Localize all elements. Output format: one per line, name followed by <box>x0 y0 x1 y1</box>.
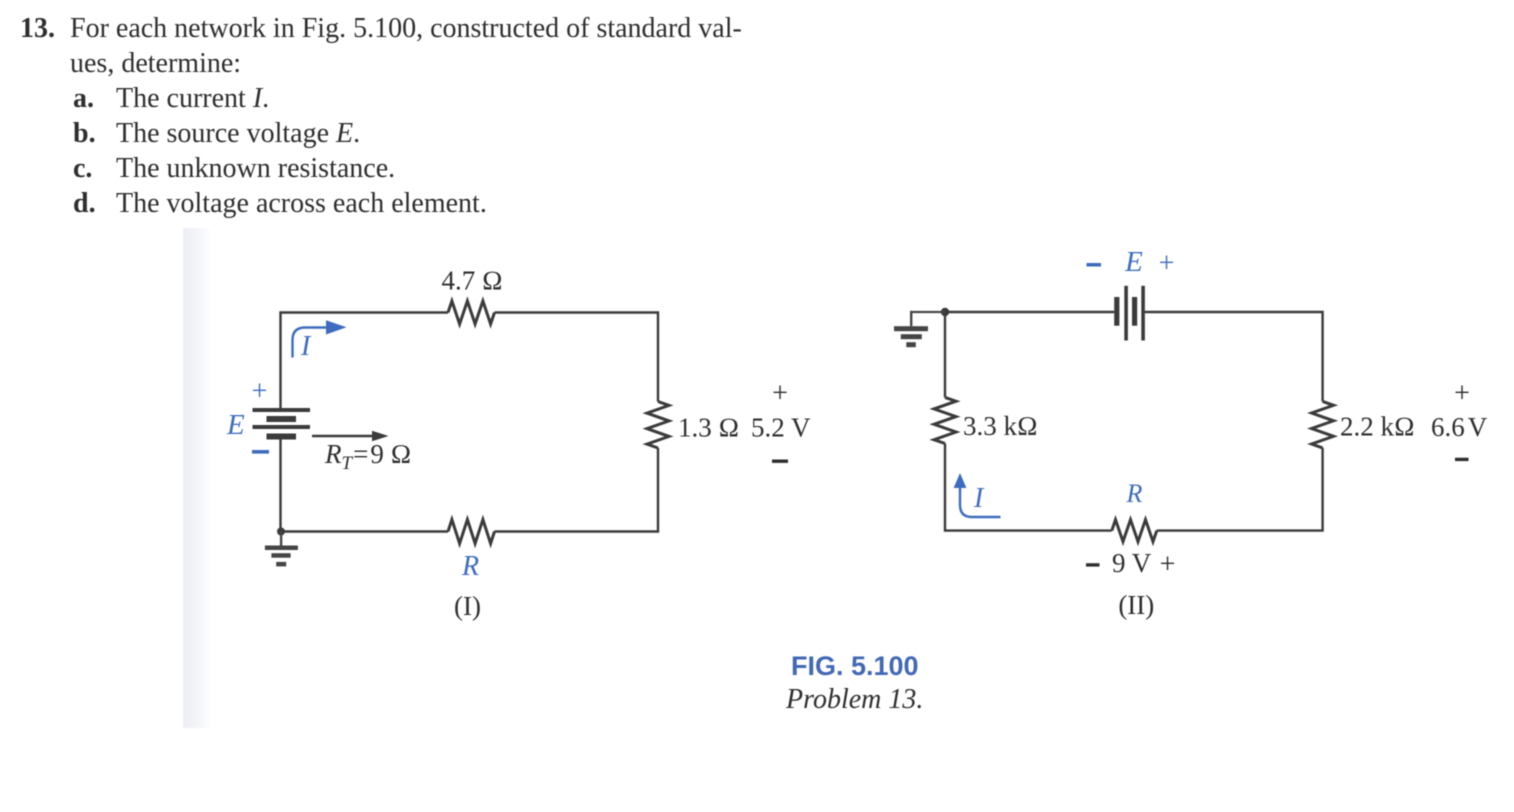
svg-text:RT=9 Ω: RT=9 Ω <box>324 439 411 474</box>
svg-text:The current I.: The current I. <box>116 83 269 114</box>
svg-text:2.2 kΩ: 2.2 kΩ <box>1340 412 1415 442</box>
resistor 1.3 ohm zigzag <box>647 402 669 449</box>
svg-text:13.: 13. <box>20 13 55 44</box>
svg-text:ues, determine:: ues, determine: <box>70 48 241 79</box>
battery E (circuit I) <box>253 408 311 440</box>
svg-text:+: + <box>252 376 268 407</box>
resistor 2.2k zigzag <box>1312 401 1334 448</box>
svg-text:+: + <box>1454 378 1470 409</box>
wire battery to top-right corner, down to resistor <box>1145 312 1323 401</box>
svg-text:(II): (II) <box>1118 590 1154 620</box>
current arrow I (blue, circuit I) <box>293 328 328 358</box>
label - 9 V + below resistor <box>1086 563 1100 566</box>
svg-text:d.: d. <box>73 188 96 219</box>
svg-text:1.3 Ω: 1.3 Ω <box>678 413 739 443</box>
node dot top-left (II) <box>941 308 949 316</box>
svg-text:+: + <box>772 378 788 409</box>
resistor R zigzag (bottom II) <box>1112 520 1157 542</box>
label - (6.6V) <box>1455 458 1469 461</box>
labels - E + above battery II <box>1087 263 1102 267</box>
wire top-left segment (left of resistor R 4.7) <box>281 313 449 409</box>
svg-text:R: R <box>1126 479 1143 508</box>
wire right-bottom <box>1157 448 1323 531</box>
svg-text:4.7 Ω: 4.7 Ω <box>442 266 503 296</box>
svg-text:5.2 V: 5.2 V <box>751 413 811 443</box>
svg-text:E: E <box>226 409 245 441</box>
resistor R zigzag (bottom) <box>448 520 495 544</box>
svg-text:R: R <box>461 551 479 582</box>
battery E (circuit II) vertical plates <box>1114 286 1145 341</box>
resistor 3.3k zigzag <box>934 397 956 443</box>
current arrow I (blue, circuit II) <box>960 487 1001 517</box>
wire right-bottom segment <box>495 448 659 532</box>
svg-text:9 V: 9 V <box>1112 548 1152 578</box>
label - (5.2V) <box>772 460 788 463</box>
svg-text:E: E <box>1124 246 1143 278</box>
svg-text:a.: a. <box>73 83 94 114</box>
wire top-right segment <box>495 313 659 402</box>
ground (circuit I) <box>265 532 298 567</box>
svg-text:+: + <box>1160 549 1176 580</box>
ground (circuit II) <box>894 311 945 347</box>
label - below battery <box>252 450 269 454</box>
wire bottom-left <box>945 444 1112 531</box>
wire top-left segment to battery <box>945 312 1114 397</box>
svg-text:The source voltage E.: The source voltage E. <box>116 118 360 149</box>
wire bottom-left segment <box>281 440 449 532</box>
svg-text:3.3 kΩ: 3.3 kΩ <box>963 411 1038 441</box>
svg-text:The unknown resistance.: The unknown resistance. <box>116 153 395 184</box>
svg-text:b.: b. <box>73 118 96 149</box>
svg-text:FIG. 5.100: FIG. 5.100 <box>791 651 919 681</box>
svg-text:I: I <box>300 331 312 362</box>
svg-text:The voltage across each elemen: The voltage across each element. <box>116 188 487 219</box>
svg-text:For each network in Fig. 5.100: For each network in Fig. 5.100, construc… <box>70 13 742 44</box>
problem statement text <box>20 13 742 219</box>
svg-text:c.: c. <box>73 153 92 184</box>
svg-text:I: I <box>973 483 985 514</box>
resistor 4.7 ohm zigzag <box>448 301 495 324</box>
svg-text:+: + <box>1159 248 1175 279</box>
svg-text:(I): (I) <box>454 591 481 621</box>
svg-text:Problem 13.: Problem 13. <box>785 684 923 715</box>
svg-text:6.6V: 6.6V <box>1431 412 1488 442</box>
RT arrow <box>312 435 373 437</box>
node dot bottom-left (I) <box>277 528 285 536</box>
